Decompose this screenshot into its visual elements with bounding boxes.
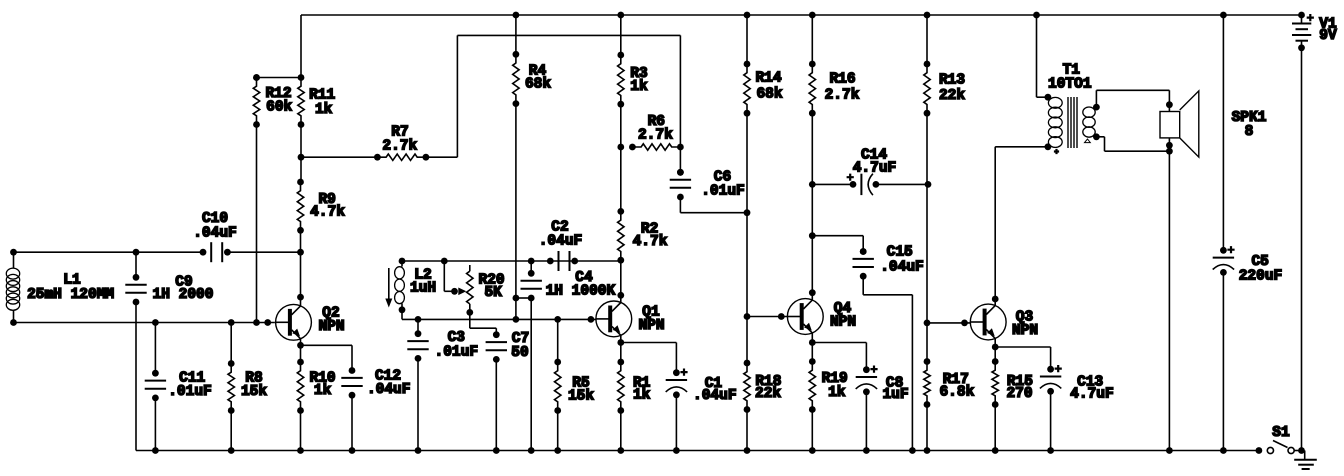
svg-text:9V: 9V xyxy=(1319,28,1337,44)
wire Q4 emitter to C8 xyxy=(812,342,866,344)
transistor Q1 xyxy=(596,301,632,337)
wire C6 bottom to R14 line xyxy=(679,197,681,213)
wire Q1 emitter node xyxy=(620,335,622,342)
resistor R4 xyxy=(513,12,520,19)
speaker SPK1 xyxy=(1160,112,1180,138)
svg-text:NPN: NPN xyxy=(638,318,664,334)
wire R2 bottom to Q1 collector xyxy=(620,260,622,303)
svg-text:.01uF: .01uF xyxy=(435,344,479,360)
wire R20 bottom to C7 xyxy=(469,312,471,328)
capacitor C3 xyxy=(415,316,422,323)
wire feedback rail to C6/R6 branch xyxy=(457,34,680,36)
svg-text:1k: 1k xyxy=(828,385,846,401)
resistor R16 xyxy=(809,12,816,19)
svg-text:R16: R16 xyxy=(829,72,855,88)
resistor R10 xyxy=(300,345,302,362)
wire R14 line down to Q4 base xyxy=(746,213,748,317)
svg-text:220uF: 220uF xyxy=(1239,269,1283,285)
wire rail corner down to R11/R12 tie xyxy=(300,15,302,78)
wire speaker to ground rail xyxy=(1168,151,1170,450)
battery V1 xyxy=(1298,12,1305,19)
transformer T1 secondary xyxy=(1093,104,1100,111)
svg-text:.04uF: .04uF xyxy=(539,234,583,250)
svg-text:L1: L1 xyxy=(63,272,81,288)
resistor R19 xyxy=(811,343,813,362)
capacitor C10 xyxy=(200,249,207,256)
svg-text:8: 8 xyxy=(1245,124,1254,140)
wire battery negative down to switch node xyxy=(1301,48,1303,451)
wire Q3 base wire xyxy=(927,322,971,324)
svg-text:5K: 5K xyxy=(484,285,502,301)
wire R3 to R6 node xyxy=(620,104,622,147)
resistor R5 xyxy=(554,316,561,323)
svg-text:NPN: NPN xyxy=(830,315,856,331)
wire V+ top rail xyxy=(301,14,1302,16)
wire Q2 emitter to C12 xyxy=(301,344,353,346)
svg-text:15k: 15k xyxy=(241,384,267,400)
tuning arrow of L2 xyxy=(388,268,390,301)
capacitor C13 xyxy=(1047,366,1054,373)
svg-text:1H 2000: 1H 2000 xyxy=(153,287,214,303)
svg-text:.01uF: .01uF xyxy=(701,184,745,200)
wire L1 top to C10 xyxy=(14,251,204,253)
transformer T1 primary xyxy=(1045,94,1052,101)
svg-text:R13: R13 xyxy=(939,73,965,89)
wire R11 bottom to R7 node xyxy=(300,125,302,158)
svg-text:4.7uF: 4.7uF xyxy=(853,161,897,177)
capacitor C7 xyxy=(493,331,500,338)
svg-text:22k: 22k xyxy=(755,386,781,402)
resistor R12 xyxy=(253,74,260,81)
node Q2 base terminal xyxy=(264,319,271,326)
wire Q3 collector up to T1 xyxy=(994,147,996,306)
capacitor C14 xyxy=(812,183,853,185)
svg-text:15k: 15k xyxy=(568,388,594,404)
wire L2 bottom to Q1 base xyxy=(402,318,596,320)
svg-text:6.8k: 6.8k xyxy=(939,385,974,401)
wire C4 line down to ground xyxy=(530,298,532,451)
svg-text:1k: 1k xyxy=(315,102,333,118)
capacitor C15 xyxy=(812,235,863,237)
capacitor C9 xyxy=(133,249,140,256)
resistor R18 xyxy=(746,317,748,364)
transformer T1 core xyxy=(1067,97,1069,148)
wire C9 bottom to ground rail xyxy=(135,302,137,451)
wire R12 top tie to R11 xyxy=(257,77,302,79)
wire Q3 emitter to C13 xyxy=(995,346,1050,348)
svg-text:1uF: 1uF xyxy=(882,387,908,403)
wire down to Q4 collector xyxy=(811,236,813,301)
svg-text:2.7k: 2.7k xyxy=(382,139,417,155)
transistor Q4 xyxy=(787,299,823,335)
resistor R2 xyxy=(620,147,622,211)
svg-text:22k: 22k xyxy=(939,88,965,104)
svg-text:25mH 120MM: 25mH 120MM xyxy=(27,287,114,303)
wire L2 top rail xyxy=(402,260,621,262)
resistor R6 xyxy=(629,144,636,151)
svg-text:.04uF: .04uF xyxy=(880,260,924,276)
wire R16 down to C14 node xyxy=(811,113,813,184)
transistor Q3 xyxy=(970,304,1006,340)
node C10/R9 junction xyxy=(297,249,304,256)
wire R12 bottom down to L1 wire xyxy=(256,125,258,323)
inductor L2 xyxy=(399,258,406,265)
svg-text:NPN: NPN xyxy=(1012,323,1038,339)
wire L1 bottom to Q2 base xyxy=(14,322,275,324)
node R6 left junction xyxy=(617,144,624,151)
wire R9 to Q2 collector xyxy=(300,230,302,306)
capacitor C6 xyxy=(679,147,681,172)
resistor R7 xyxy=(374,154,381,161)
svg-text:C15: C15 xyxy=(887,245,913,261)
wire T1 secondary top to speaker xyxy=(1095,90,1097,107)
wire R14 down to C6 node xyxy=(746,113,748,213)
resistor R11 xyxy=(298,74,305,81)
resistor R3 xyxy=(617,12,624,19)
wire R7 right riser to feedback rail xyxy=(426,156,458,158)
svg-text:S1: S1 xyxy=(1272,425,1290,441)
node Q2 collector terminal xyxy=(297,294,304,301)
node Q1 base terminal xyxy=(588,316,595,323)
ground symbol xyxy=(1304,451,1306,460)
wire Q2 emitter node xyxy=(300,339,302,346)
wiper wire of R20 xyxy=(441,258,448,265)
svg-text:1k: 1k xyxy=(314,383,332,399)
resistor R15 xyxy=(994,347,996,362)
wire R4 down to Q1 base rail xyxy=(515,104,517,320)
svg-text:1k: 1k xyxy=(633,387,651,403)
svg-text:.04uF: .04uF xyxy=(367,382,411,398)
wire Q4 emitter node xyxy=(811,333,813,343)
capacitor C11 xyxy=(152,319,159,326)
resistor R17 xyxy=(926,323,928,362)
wire C15 bottom to ground xyxy=(862,276,864,295)
wire C10 to node at R9 line xyxy=(228,251,301,253)
svg-text:4.7uF: 4.7uF xyxy=(1070,387,1114,403)
svg-text:68k: 68k xyxy=(756,86,782,102)
wire R13 line down to Q3 base xyxy=(926,184,928,323)
svg-text:1H 1000K: 1H 1000K xyxy=(546,283,616,299)
svg-text:50: 50 xyxy=(511,345,528,361)
svg-text:1k: 1k xyxy=(630,79,648,95)
resistor R13 xyxy=(924,12,931,19)
inductor L1 xyxy=(10,249,17,256)
capacitor C4 xyxy=(528,258,535,265)
svg-text:C3: C3 xyxy=(448,330,465,346)
wire Q3 emitter node xyxy=(994,338,996,347)
svg-text:68k: 68k xyxy=(525,77,551,93)
svg-text:1uH: 1uH xyxy=(410,281,436,297)
svg-text:NPN: NPN xyxy=(318,319,344,335)
capacitor C5 xyxy=(1220,12,1227,19)
wire R16 line to C15 node xyxy=(811,184,813,235)
node R11/R7/R9 junction xyxy=(298,154,305,161)
resistor R8 xyxy=(228,319,235,326)
svg-text:2.7k: 2.7k xyxy=(638,128,673,144)
wire R13 down to C14 node xyxy=(926,113,928,184)
svg-text:4.7k: 4.7k xyxy=(310,205,345,221)
capacitor C12 xyxy=(349,367,356,374)
transistor Q2 xyxy=(276,304,312,340)
wire Q1 emitter to C1 xyxy=(621,342,677,344)
svg-text:4.7k: 4.7k xyxy=(633,234,668,250)
svg-text:.01uF: .01uF xyxy=(168,384,212,400)
capacitor C1 xyxy=(673,369,680,376)
svg-text:270: 270 xyxy=(1006,386,1032,402)
potentiometer R20 xyxy=(469,265,471,271)
wire T1 secondary bottom to speaker xyxy=(1096,136,1104,138)
capacitor C8 xyxy=(863,366,870,373)
resistor R14 xyxy=(744,12,751,19)
switch S1 xyxy=(1256,447,1263,454)
svg-text:R14: R14 xyxy=(755,71,781,87)
wire T1 primary bottom to Q3 collector xyxy=(995,146,1048,148)
svg-text:.04uF: .04uF xyxy=(193,226,237,242)
wire Q4 base wire xyxy=(747,316,787,318)
wire ground rail xyxy=(136,450,1259,452)
resistor R1 xyxy=(620,343,622,363)
wire C4 bottom tie to R4 line xyxy=(516,297,531,299)
svg-text:.04uF: .04uF xyxy=(693,388,737,404)
wire rail to T1 primary xyxy=(1033,12,1040,19)
capacitor C2 xyxy=(547,258,554,265)
resistor R9 xyxy=(300,157,302,182)
svg-text:10TO1: 10TO1 xyxy=(1048,76,1092,92)
svg-text:60k: 60k xyxy=(266,100,292,116)
svg-text:2.7k: 2.7k xyxy=(825,87,860,103)
wire R7 left lead xyxy=(301,156,377,158)
